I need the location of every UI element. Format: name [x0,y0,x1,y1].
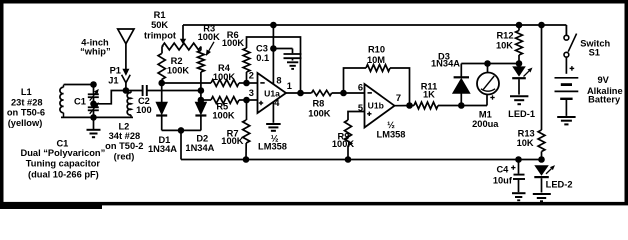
wire R7 to rail [245,143,247,160]
wire meter top [461,63,519,65]
LED-1 arrow [524,71,529,76]
wire J1 to C2 [126,90,142,92]
resistor R10 [366,65,390,72]
svg-text:23t #28: 23t #28 [11,98,43,108]
svg-text:(yellow): (yellow) [8,118,43,128]
wire R6 feedback to output [247,37,301,93]
U1b plus [367,113,371,115]
node R7 rail [243,156,250,163]
svg-text:100K: 100K [198,32,221,42]
svg-text:LM358: LM358 [377,129,406,139]
wire M1 bottom [486,94,488,106]
svg-text:100: 100 [136,105,152,115]
C1 upper arrow [90,93,96,101]
node J1 [123,87,130,94]
svg-text:10K: 10K [517,138,534,148]
node R8-U1b [340,90,347,97]
svg-text:1N34A: 1N34A [431,59,460,69]
wire R11 to D3 [438,105,487,107]
svg-text:R13: R13 [518,128,535,138]
ground LED-1 [510,95,528,97]
svg-text:9V: 9V [598,75,610,85]
diode D3 [453,79,470,94]
wire D2 cathode down [200,116,202,131]
wire node Y to D2 [200,100,202,102]
node Y upper (C2/R3) [198,87,205,94]
capacitor C1 upper section [93,85,95,94]
svg-text:M1: M1 [479,110,492,120]
wire tank bottom [61,116,133,118]
svg-text:1N34A: 1N34A [148,144,177,154]
resistor R7 [243,120,250,143]
wire node X to R4 [162,82,211,84]
svg-text:7: 7 [396,93,401,103]
op-amp U1a [258,73,287,113]
wire pin3 node to R7 [246,100,248,120]
node M1 top [484,60,491,67]
ground tank [93,117,95,129]
svg-text:100K: 100K [222,38,245,48]
inductor L1 [60,87,64,112]
inductor L2 [127,93,131,115]
node R9 rail [345,156,352,163]
resistor R9 [345,120,352,146]
svg-text:LED-1: LED-1 [508,109,535,119]
wire pin5 [348,112,365,121]
R3 pointer arrow [209,42,214,51]
node LED-2 top [538,156,545,163]
battery plus [570,67,575,69]
wire pin2 [247,82,259,84]
resistor R13 [538,130,545,152]
node X (R2/D1/R4) [158,80,165,87]
wire node Y to R5 [201,99,211,101]
wire M1 top stub [487,64,489,73]
svg-text:0.1: 0.1 [256,53,269,63]
svg-text:U1a: U1a [264,88,280,98]
svg-text:L1: L1 [21,87,32,97]
ground U1a pin4 [266,123,281,125]
resistor R5 [211,97,239,104]
svg-text:100K: 100K [332,139,355,149]
svg-text:100K: 100K [308,109,331,119]
wire pin8 to rail [272,25,274,84]
battery B1 [555,77,579,79]
node rail R12 [516,22,523,29]
svg-text:(dual 10-266 pF): (dual 10-266 pF) [28,170,99,180]
node Y lower (D2/R5) [198,97,205,104]
diode D2 [195,102,206,114]
svg-text:R10: R10 [368,44,385,54]
svg-text:LM358: LM358 [258,142,287,152]
wire tank top [65,84,94,86]
node R12 LED-1 [516,60,523,67]
svg-text:Battery: Battery [588,95,621,105]
node U1a output [297,90,304,97]
svg-text:R1: R1 [154,10,166,20]
wire R2 to node X [161,80,163,84]
jack J1 fork [122,75,131,83]
node D1-D2 [178,127,185,134]
op-amp U1b [365,84,395,128]
svg-text:J1: J1 [108,76,118,86]
node rail R13 [538,22,545,29]
ground C4 [512,192,526,194]
svg-text:C1: C1 [56,138,68,148]
svg-text:trimpot: trimpot [144,31,176,41]
resistor R6 [243,48,250,72]
svg-text:10K: 10K [496,41,513,51]
wire node X to D1 [161,83,163,102]
wire R4 to pin2 node [239,82,247,84]
capacitor C2 [142,85,144,96]
svg-text:(red): (red) [114,151,135,161]
wire switch to battery [565,57,567,74]
C4 plus [511,167,515,169]
resistor R2 [158,54,165,80]
node C1 bottom [90,114,97,121]
node U1b output [406,102,413,109]
resistor R8 [312,90,332,95]
wire R9 to rail [347,146,349,160]
svg-text:100K: 100K [221,136,244,146]
node C1 mid tap [90,101,97,108]
svg-text:S1: S1 [589,48,600,58]
resistor R12 [516,31,523,56]
switch S1 [564,35,569,40]
svg-text:LED-2: LED-2 [546,179,573,189]
U1b minus [368,92,372,94]
resistor R4 [211,80,239,87]
wire C2 to node Y [148,90,202,92]
svg-text:100K: 100K [213,72,236,82]
U1a plus [259,102,263,104]
svg-text:1N34A: 1N34A [185,143,214,153]
svg-text:8: 8 [276,76,281,86]
wire R1 right to R3 [200,47,202,51]
svg-text:on T50-2: on T50-2 [105,141,143,151]
wire rail to R12 [518,25,520,31]
node C4 rail [515,156,522,163]
C1 lower arrow [90,106,96,114]
svg-text:on T50-6: on T50-6 [7,108,45,118]
svg-text:1: 1 [287,81,292,91]
wire R3 to node Y [200,72,202,91]
svg-text:10M: 10M [367,55,385,65]
U1a minus [260,82,264,84]
svg-text:L2: L2 [118,122,129,132]
wire C3 tap [273,48,292,50]
svg-text:“whip”: “whip” [80,47,110,57]
wire rail to R13 [541,25,543,130]
svg-text:P1: P1 [110,65,121,75]
wire node to R10 [344,68,367,93]
svg-text:200ua: 200ua [472,119,499,129]
M1 plus [490,97,494,99]
resistor R3 [198,51,205,73]
resistor R1 trimpot [162,43,201,50]
svg-text:100K: 100K [212,111,235,121]
wire R8 to node [332,92,365,94]
wire C1 tap to J1 [94,91,126,104]
svg-text:6: 6 [358,83,363,93]
svg-text:34t #28: 34t #28 [109,131,141,141]
svg-text:1K: 1K [423,90,435,100]
svg-text:C4: C4 [496,165,509,175]
wire pin3 [247,99,259,101]
wire top supply rail [183,24,566,26]
svg-text:Tuning capacitor: Tuning capacitor [26,159,101,169]
node C1 top [90,81,97,88]
wire R13 to rail bottom [541,152,543,160]
LED-2 arrow [546,169,551,174]
wire rail to switch [565,25,567,35]
meter M1 [477,73,499,95]
LED-2 [534,165,549,175]
wire J1 stem [125,83,127,91]
node rail pin8 [270,22,277,29]
svg-text:4: 4 [274,98,280,108]
svg-text:50K: 50K [151,20,168,30]
capacitor C4 [518,160,520,174]
wire U1a output [286,92,312,94]
wire antenna to plug [125,44,127,70]
ground battery [557,116,575,118]
wire R10 to output [390,68,410,106]
diode D1 [156,102,167,114]
wire to bottom rail [180,130,182,159]
svg-text:2: 2 [249,71,254,81]
ground C3 [287,61,298,63]
capacitor C3 [292,49,294,54]
wire D1 cathode down [161,116,163,131]
wire pin4 [272,102,274,123]
wire bottom reference rail [181,159,542,161]
R1 wiper [182,25,184,40]
capacitor C1 lower section [93,104,95,107]
svg-text:Dual “Polyvaricon”: Dual “Polyvaricon” [21,148,106,158]
antenna whip [118,29,134,44]
svg-text:R12: R12 [496,31,513,41]
LED-1 [512,66,526,76]
wire R12 to LED node [518,55,520,64]
resistor R11 [414,102,438,109]
node D3 anode [458,102,465,109]
svg-text:3: 3 [249,88,254,98]
wire U1b output [395,105,415,107]
wire R1 left to R2 [161,47,163,54]
wire R6 bottom to pin2 node [246,72,248,83]
svg-text:C1: C1 [74,96,86,106]
svg-text:100K: 100K [167,66,190,76]
ground LED-2 [533,193,551,195]
node C3 tap [270,45,277,52]
svg-text:U1b: U1b [368,101,384,111]
plug P1 arrow [122,69,129,76]
node pin2 [243,80,250,87]
svg-text:R8: R8 [312,98,324,108]
svg-text:10uf: 10uf [493,176,513,186]
wire R5 to pin3 node [239,99,247,101]
wire node Y vertical [200,91,202,101]
node pin3 [243,97,250,104]
wire D1-D2 junction [162,129,201,131]
